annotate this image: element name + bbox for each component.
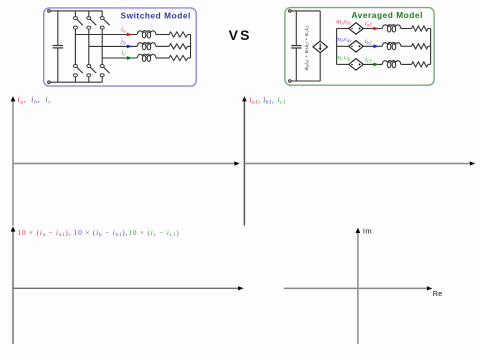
inductor Lb switched [137, 43, 156, 47]
switch S6 bottom (leg c low side) [101, 77, 103, 83]
svg-text:mavdc: mavdc [336, 18, 352, 25]
svg-text:ib: ib [121, 39, 126, 47]
svg-text:VS: VS [229, 27, 252, 43]
switched bottom rail wire [50, 81, 102, 83]
plot1 x-axis arrowhead [234, 161, 240, 165]
svg-text:ib1,: ib1, [263, 95, 274, 105]
plot3 x-axis line [13, 287, 238, 289]
svg-text:Averaged Model: Averaged Model [351, 10, 422, 20]
plot3 y-axis arrowhead [11, 226, 16, 231]
plot4 Re axis arrowhead [427, 286, 433, 290]
switch S1 top (leg a high side) [74, 11, 76, 17]
inductor La1 averaged [382, 25, 401, 29]
current arrow i_c1 [373, 63, 378, 67]
current arrow i_b [127, 45, 132, 49]
wire source to inductor phase b1 [363, 45, 382, 47]
terminal top-left averaged [289, 10, 292, 13]
switched top rail wire [50, 10, 102, 12]
averaged model enclosure box [285, 8, 434, 86]
wire source to inductor phase c1 [363, 63, 382, 65]
wire resistor to bus phase c1 [428, 63, 431, 65]
current arrow i_a1 [373, 27, 378, 31]
plot4 Im axis line [357, 233, 359, 344]
svg-text:ib,: ib, [31, 95, 40, 105]
svg-text:ia,: ia, [17, 95, 26, 105]
svg-text:ic1: ic1 [278, 95, 286, 105]
current arrow i_c [127, 56, 132, 60]
svg-text:10 × (ib − ib1),: 10 × (ib − ib1), [74, 229, 128, 238]
averaged right neutral bus wire [430, 29, 432, 65]
capacitor C branch wire lower [57, 48, 59, 82]
leg a midpoint wire [74, 29, 76, 64]
svg-text:mbvdc: mbvdc [336, 36, 352, 43]
wire from controlled current source bottom [319, 53, 321, 81]
capacitor C1 branch wire upper [295, 11, 297, 46]
svg-text:maia1 + mbib1 + mcic1: maia1 + mbib1 + mcic1 [304, 25, 310, 70]
capacitor C1 plates [291, 45, 301, 47]
wire inductor to resistor phase a [156, 34, 169, 36]
plot1 x-axis line [13, 163, 235, 165]
resistor Rb1 averaged [412, 44, 429, 49]
inductor La switched [137, 31, 156, 35]
wire inductor to resistor phase b1 [401, 45, 412, 47]
svg-text:Im: Im [363, 227, 372, 236]
terminal bottom-left averaged [289, 80, 292, 83]
phase b wire to load [89, 45, 137, 47]
switch S4 bottom (leg a low side) [74, 77, 76, 83]
averaged top rail wire [291, 10, 320, 12]
plot2 x-axis line [244, 163, 470, 165]
svg-text:ic1: ic1 [365, 57, 372, 65]
wire resistor to bus phase a1 [428, 28, 431, 30]
plot4 Im axis arrowhead [356, 228, 361, 233]
current arrow i_a [127, 33, 132, 37]
svg-text:ic: ic [45, 95, 51, 105]
leg c midpoint wire [101, 29, 103, 64]
wire resistor to bus phase b [188, 45, 191, 47]
svg-text:10 × (ia − ia1),: 10 × (ia − ia1), [18, 229, 72, 238]
switched model enclosure box [44, 8, 197, 86]
leg b midpoint wire [88, 29, 90, 64]
switch S2 top (leg b high side) [88, 11, 90, 17]
wire resistor to bus phase a [188, 34, 191, 36]
plot3 y-axis line [12, 232, 14, 345]
switch S3 top (leg c high side) [101, 11, 103, 17]
plot2 y-axis line [243, 101, 245, 225]
current arrow i_b1 [373, 44, 378, 48]
resistor Ra1 averaged [412, 26, 429, 31]
capacitor C branch wire upper [57, 11, 59, 45]
controlled voltage source m_av_dc diamond [349, 23, 364, 35]
controlled voltage source m_cv_dc diamond [349, 59, 364, 71]
switch S5 bottom (leg b low side) [88, 77, 90, 83]
capacitor C1 branch wire lower [295, 48, 297, 81]
averaged source bus wire [336, 29, 338, 65]
plot2 y-axis arrowhead [242, 96, 247, 101]
svg-text:ib1: ib1 [365, 38, 372, 46]
inductor Lc switched [137, 54, 156, 58]
plot4 Re axis line [284, 287, 427, 289]
wire to controlled current source top [319, 11, 321, 41]
svg-text:Re: Re [433, 289, 443, 298]
svg-text:10 × (ic − ic1): 10 × (ic − ic1) [128, 229, 179, 238]
svg-text:ia1: ia1 [365, 21, 372, 29]
terminal bottom-left switched [48, 81, 51, 84]
svg-text:ia1,: ia1, [249, 95, 260, 105]
inductor Lc1 averaged [382, 61, 401, 65]
wire bus to source m_av_dc [337, 28, 349, 30]
inductor Lb1 averaged [382, 42, 401, 46]
resistor Rc switched [169, 55, 188, 60]
controlled current source I1 diamond [313, 41, 327, 53]
svg-text:ic: ic [121, 50, 126, 58]
svg-text:mcvdc: mcvdc [336, 54, 351, 61]
wire inductor to resistor phase c [156, 57, 169, 59]
terminal top-left switched [48, 10, 51, 13]
phase a wire to load [75, 34, 137, 36]
svg-text:ia: ia [121, 27, 126, 35]
plot3 x-axis arrowhead [238, 286, 244, 290]
resistor Rb switched [169, 44, 188, 49]
phase c wire to load [102, 57, 137, 59]
capacitor C plates [53, 45, 64, 47]
plot1 y-axis arrowhead [11, 96, 16, 101]
wire source to inductor phase a1 [363, 28, 382, 30]
switched right neutral bus wire [190, 35, 192, 59]
wire inductor to resistor phase c1 [401, 63, 412, 65]
wire resistor to bus phase c [188, 57, 191, 59]
wire bus to source m_bv_dc [337, 45, 349, 47]
plot1 y-axis line [12, 101, 14, 225]
resistor Rc1 averaged [412, 62, 429, 67]
averaged bottom rail wire [291, 80, 320, 82]
wire resistor to bus phase b1 [428, 45, 431, 47]
svg-text:Switched Model: Switched Model [120, 10, 190, 20]
wire inductor to resistor phase b [156, 45, 169, 47]
controlled voltage source m_bv_dc diamond [349, 41, 364, 53]
wire inductor to resistor phase a1 [401, 28, 412, 30]
resistor Ra switched [169, 32, 188, 37]
plot2 x-axis arrowhead [470, 161, 476, 165]
wire bus to source m_cv_dc [337, 63, 349, 65]
